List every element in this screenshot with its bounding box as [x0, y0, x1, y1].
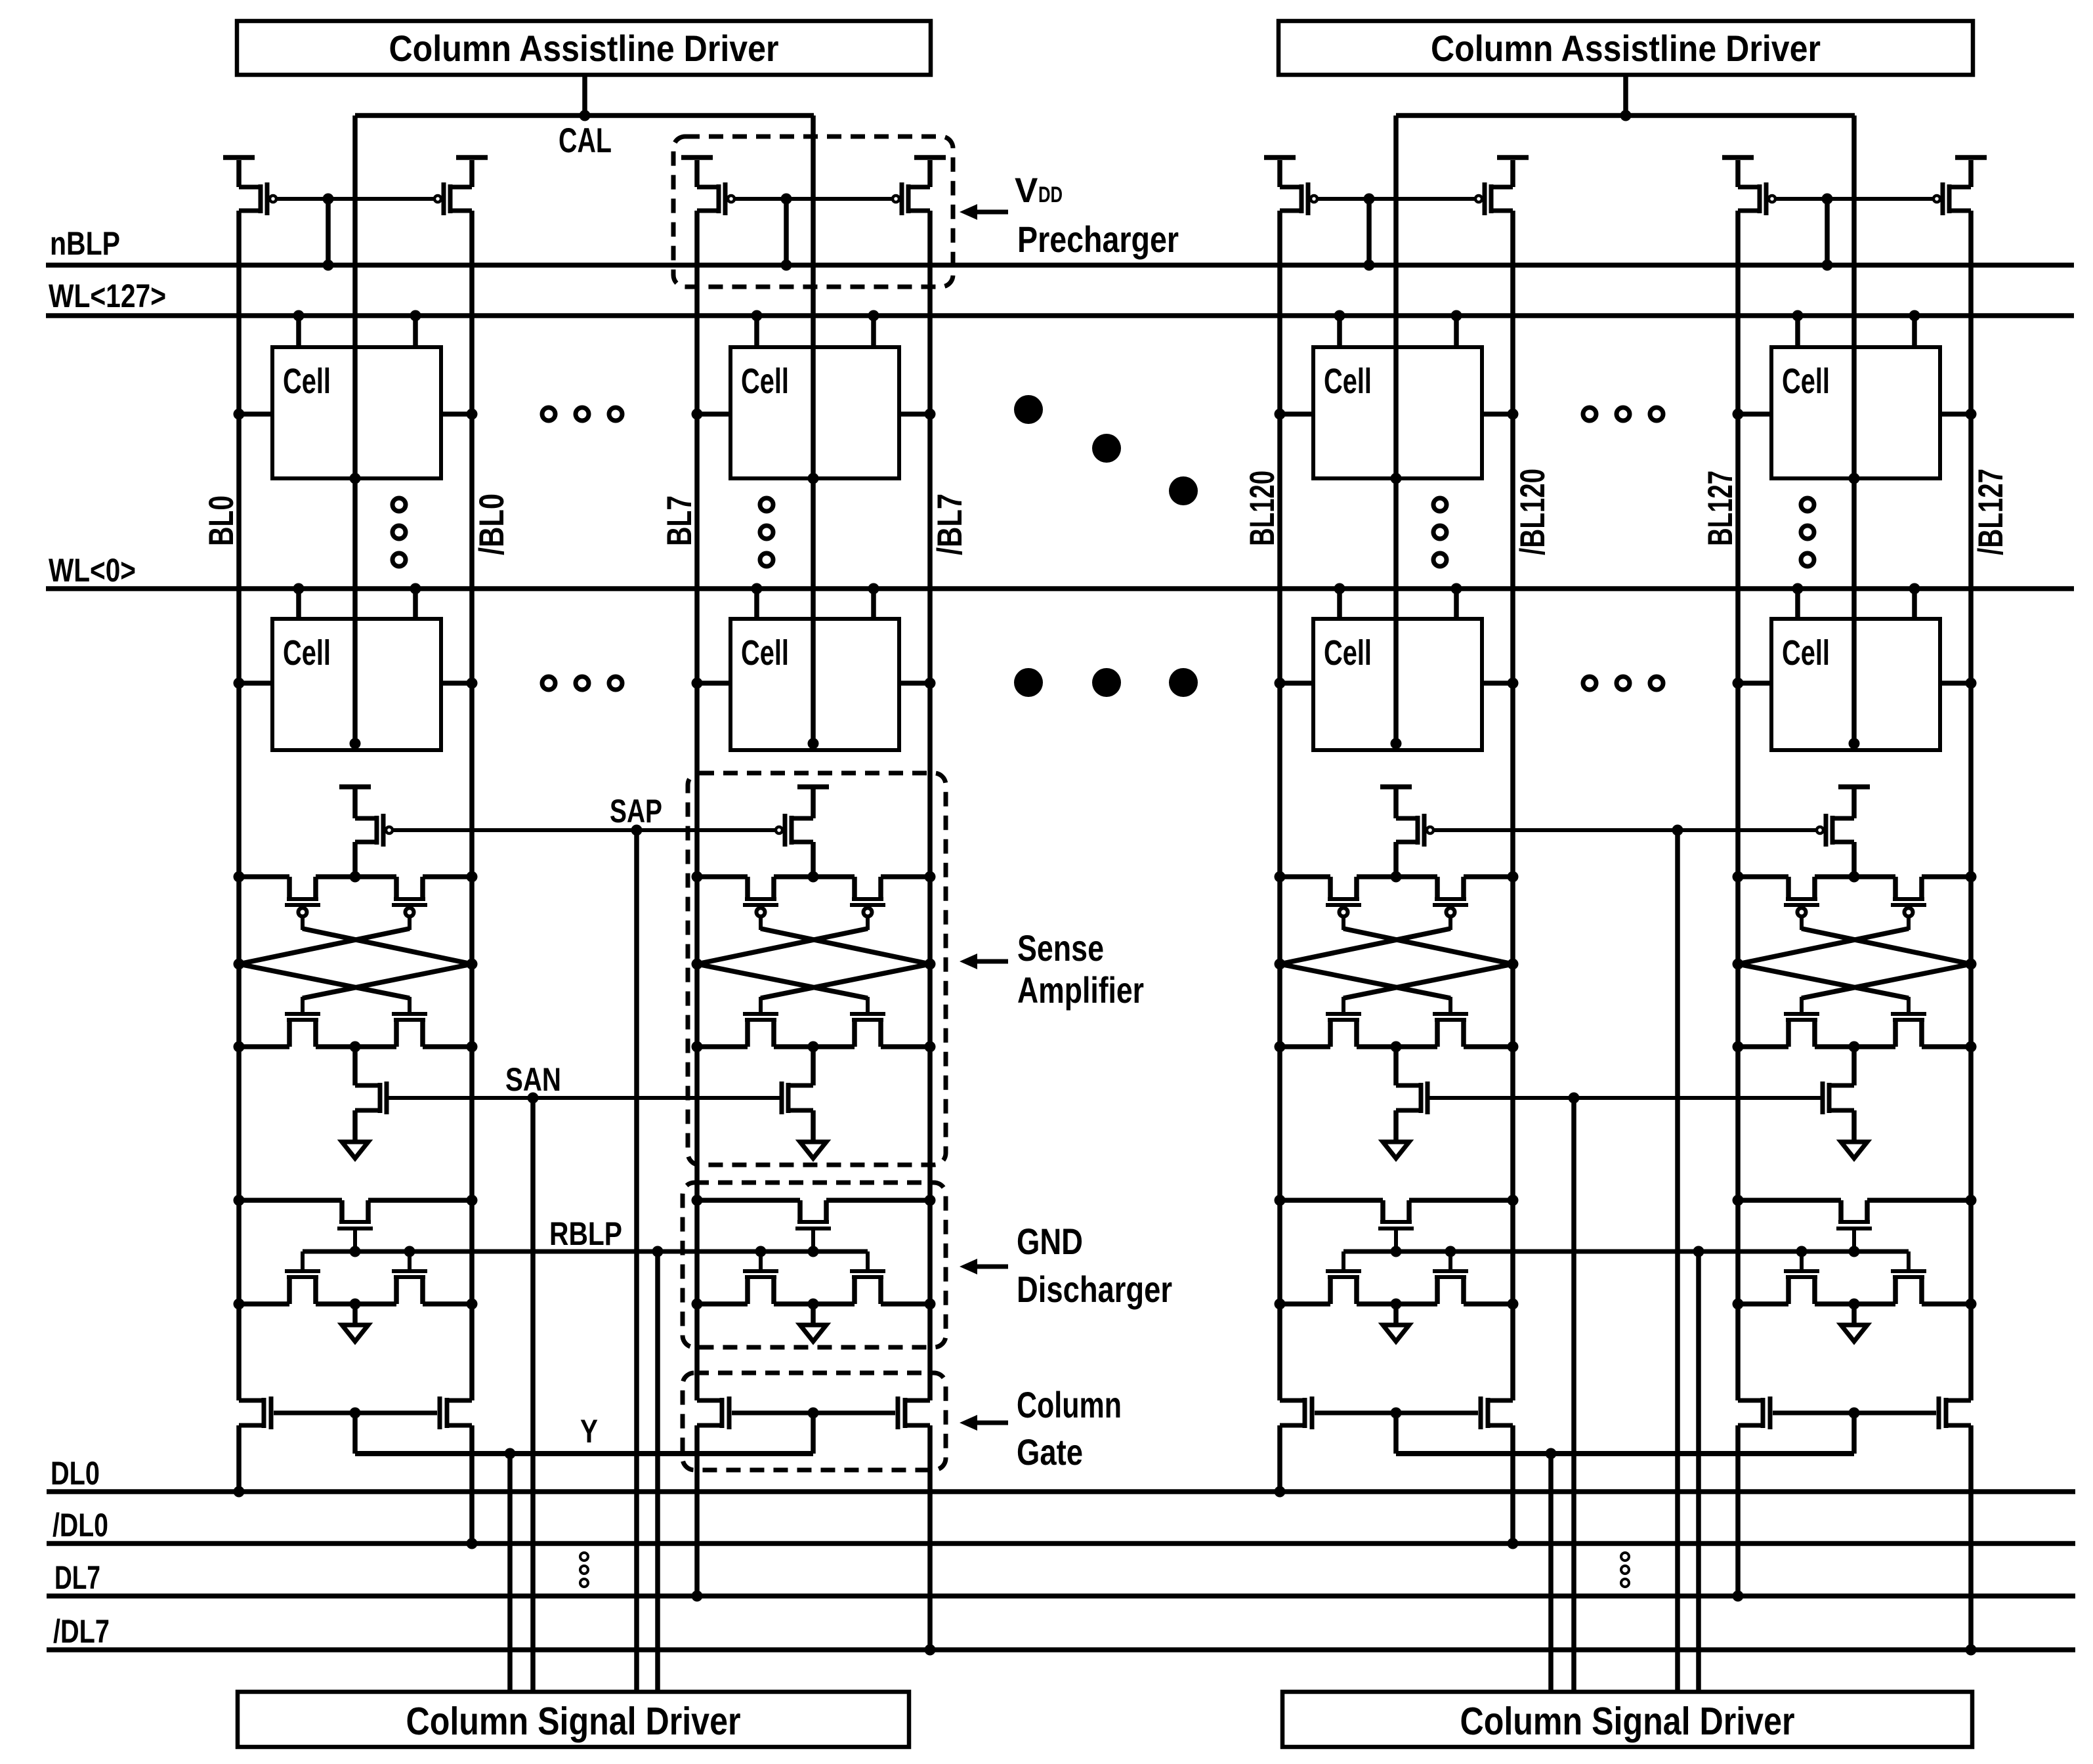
dashed box column gate [683, 1373, 946, 1470]
VDD stub (T-bar) over /BL0 [456, 155, 488, 160]
sense amp lower cross wires pair 127 [1738, 964, 1971, 998]
sense amp cross-coupled PMOS left pair 7 [743, 877, 778, 930]
svg-text:Cell: Cell [1324, 362, 1372, 401]
label /BL7 [931, 493, 969, 555]
column gate gate wires pair 0 [274, 1408, 437, 1454]
wire BL0 bit line [234, 211, 245, 1498]
sense amp top rail pair 7 [692, 871, 936, 883]
wire Y [355, 1448, 813, 1459]
sense amp mid nodes pair 7 [692, 959, 936, 970]
svg-text:Gate: Gate [1017, 1431, 1083, 1473]
svg-text:Column Assistline Driver: Column Assistline Driver [1431, 28, 1821, 69]
wire CAL horizontal [1396, 113, 1855, 118]
svg-text:Column Assistline Driver: Column Assistline Driver [389, 28, 779, 69]
sense amp cross-coupled PMOS left pair 120 [1326, 877, 1361, 930]
label DL0 [51, 1455, 100, 1492]
discharger left NMOS pair 0 [285, 1251, 320, 1304]
precharger gate wire pair 0 [276, 197, 434, 201]
svg-text:/BL120: /BL120 [1513, 469, 1552, 555]
ground below discharger pair 120 [1383, 1304, 1409, 1341]
sense amp lower cross wires pair 120 [1280, 964, 1513, 998]
SAP PMOS pair 7 [776, 784, 829, 877]
cell WL stubs pair 127 row 1 [1792, 310, 1920, 348]
wire Y drop [1548, 1454, 1554, 1692]
SAP PMOS pair 0 [339, 784, 392, 877]
discharger RBLP node dot pair 7 [808, 1246, 819, 1257]
wire BL120 bit line [1275, 211, 1286, 1498]
sense amp top rail pair 0 [234, 871, 478, 883]
ellipsis circles between cell rows pair 7 [760, 498, 773, 566]
discharger left NMOS pair 120 [1326, 1251, 1361, 1304]
cell box pair 7 row 2 [730, 619, 899, 750]
svg-text:/BL127: /BL127 [1972, 469, 2010, 555]
ellipsis circles row 2 half 0 [542, 677, 622, 690]
precharger gate wire pair 127 [1775, 197, 1934, 201]
sense amp cross-coupled NMOS left pair 0 [285, 997, 320, 1047]
discharger center NMOS pair 120 [1378, 1200, 1414, 1251]
SAN NMOS pair 127 [1821, 1047, 1857, 1114]
precharger PMOS on /BL0 [434, 160, 475, 215]
wire RBLP [1343, 1246, 1909, 1257]
cell WL stubs pair 7 row 1 [751, 310, 879, 348]
svg-text:SAP: SAP [610, 793, 662, 829]
wire SAP [1433, 825, 1817, 836]
VDD stub (T-bar) over BL0 [223, 155, 255, 160]
ground below SAN pair 0 [342, 1110, 368, 1158]
sense amp lower cross wires pair 0 [239, 964, 472, 998]
svg-text:V: V [1015, 171, 1038, 210]
column gate NMOS on BL7 [697, 1396, 732, 1429]
Column Assistline Driver box [1279, 21, 1973, 75]
cell BL taps pair 7 row 2 [692, 678, 936, 689]
sense amp mid nodes pair 0 [234, 959, 478, 970]
label BL127 [1701, 471, 1740, 546]
label GND Discharger [1017, 1221, 1172, 1310]
label BL7 [660, 495, 699, 546]
wire DL7 [47, 1593, 2075, 1599]
discharger right NMOS pair 127 [1891, 1251, 1926, 1304]
svg-text:/BL0: /BL0 [473, 493, 511, 555]
label DL7 [54, 1559, 100, 1596]
precharger gate wire pair 120 [1317, 197, 1475, 201]
ground below discharger pair 127 [1841, 1304, 1867, 1341]
sense amp cross-coupled PMOS right pair 120 [1433, 877, 1468, 930]
precharger PMOS on /BL127 [1934, 160, 1974, 215]
wire RBLP drop [655, 1251, 660, 1692]
precharger PMOS on BL0 [236, 160, 276, 215]
sense amp cross-coupled PMOS right pair 7 [850, 877, 885, 930]
wire Y drop [507, 1454, 513, 1692]
label /DL7 [53, 1613, 110, 1650]
discharger bottom rail pair 0 [234, 1299, 478, 1310]
ground below SAN pair 7 [800, 1110, 826, 1158]
sense amp upper cross wires pair 120 [1280, 929, 1513, 964]
ellipsis circles between cell rows pair 120 [1433, 498, 1447, 566]
discharger right NMOS pair 120 [1433, 1246, 1468, 1305]
wire precharger gate to nBLP pair 7 [781, 194, 792, 271]
discharger center NMOS pair 0 [337, 1200, 373, 1251]
sense amp top rail pair 127 [1733, 871, 1977, 883]
sense amp upper cross wires pair 7 [697, 929, 930, 964]
Column Signal Driver box [238, 1692, 909, 1747]
SAN NMOS pair 120 [1393, 1047, 1429, 1114]
svg-text:SAN: SAN [505, 1061, 561, 1098]
column gate NMOS on BL120 [1280, 1396, 1315, 1429]
svg-text:Cell: Cell [1324, 633, 1372, 673]
cell box pair 120 row 2 [1313, 619, 1482, 750]
label CAL [559, 121, 612, 160]
wire /BL7 bit line [925, 211, 936, 1656]
wire SAP drop [1675, 830, 1680, 1692]
svg-text:WL<127>: WL<127> [49, 278, 166, 314]
svg-text:Column Signal Driver: Column Signal Driver [406, 1700, 741, 1743]
cell box pair 127 row 2 [1771, 619, 1940, 750]
sense amp mid nodes pair 127 [1733, 959, 1977, 970]
wire nBLP [46, 262, 2074, 268]
cell BL taps pair 0 row 2 [234, 678, 478, 689]
svg-text:DL0: DL0 [51, 1455, 100, 1492]
sense amp top rail pair 120 [1275, 871, 1519, 883]
sense amp bottom rail pair 0 [234, 1041, 478, 1053]
cell WL stubs pair 0 row 1 [293, 310, 421, 348]
svg-text:Cell: Cell [1782, 633, 1830, 673]
arrow to sense amplifier [960, 954, 1008, 969]
precharger PMOS on /BL120 [1475, 160, 1515, 215]
discharger top rail pair 127 [1733, 1195, 1977, 1206]
discharger top rail pair 120 [1275, 1195, 1519, 1206]
arrow to GND discharger [960, 1259, 1008, 1274]
svg-text:Precharger: Precharger [1017, 219, 1179, 260]
svg-text:Amplifier: Amplifier [1017, 969, 1144, 1011]
Column Assistline Driver box [237, 21, 931, 75]
VDD stub (T-bar) over BL7 [681, 155, 713, 160]
svg-text:Y: Y [580, 1413, 598, 1450]
sense amp upper cross wires pair 0 [239, 929, 472, 964]
cell BL taps pair 0 row 1 [234, 409, 478, 420]
cell BL taps pair 7 row 1 [692, 409, 936, 420]
svg-text:BL120: BL120 [1243, 471, 1282, 546]
ellipsis circles row 1 half 120 [1583, 408, 1663, 421]
wire CAL vertical pair 127 [1849, 115, 1860, 749]
wire DL0 [47, 1489, 2075, 1494]
svg-text:Column: Column [1017, 1384, 1122, 1425]
svg-text:WL<0>: WL<0> [49, 552, 136, 589]
label WL<127> [49, 278, 166, 314]
svg-text:CAL: CAL [559, 121, 612, 160]
SAP PMOS pair 127 [1817, 784, 1870, 877]
cell BL taps pair 120 row 1 [1275, 409, 1519, 420]
svg-text:/DL7: /DL7 [53, 1613, 110, 1650]
label nBLP [50, 225, 120, 262]
cell WL stubs pair 127 row 2 [1792, 583, 1920, 619]
wire CAL horizontal [355, 113, 814, 118]
label BL120 [1243, 471, 1282, 546]
wire SAN drop [1571, 1098, 1576, 1692]
sense amp cross-coupled PMOS left pair 127 [1784, 877, 1819, 930]
sense amp cross-coupled PMOS right pair 0 [392, 877, 427, 930]
svg-text:/BL7: /BL7 [931, 493, 969, 555]
label Y [580, 1413, 598, 1450]
wire Y [1396, 1448, 1854, 1459]
wire /BL0 bit line [467, 211, 478, 1549]
cell WL stubs pair 0 row 2 [293, 583, 421, 619]
wire RBLP drop [1696, 1251, 1701, 1692]
wire BL127 bit line [1733, 211, 1744, 1602]
label SAP [610, 793, 662, 829]
wire CAL vertical pair 0 [350, 115, 361, 749]
column gate gate wires pair 7 [732, 1408, 895, 1454]
arrow to VDD precharger [960, 204, 1008, 220]
wire precharger gate to nBLP pair 127 [1822, 194, 1833, 271]
label /BL120 [1513, 469, 1552, 555]
svg-text:nBLP: nBLP [50, 225, 120, 262]
discharger bottom rail pair 120 [1275, 1299, 1519, 1310]
discharger left NMOS pair 127 [1784, 1246, 1819, 1305]
svg-text:GND: GND [1017, 1221, 1083, 1262]
label /BL0 [473, 493, 511, 555]
ellipsis circles row 1 half 0 [542, 408, 622, 421]
ellipsis circles row 2 half 120 [1583, 677, 1663, 690]
ellipsis circles between cell rows pair 0 [392, 498, 406, 566]
column gate NMOS on BL127 [1738, 1396, 1773, 1429]
column gate NMOS on /BL127 [1937, 1396, 1972, 1429]
cell box pair 127 row 1 [1771, 347, 1940, 478]
wire SAN [389, 1093, 780, 1104]
discharger right NMOS pair 0 [392, 1246, 427, 1305]
column gate gate wires pair 127 [1773, 1408, 1936, 1454]
column gate NMOS on /BL7 [896, 1396, 931, 1429]
sense amp cross-coupled NMOS right pair 0 [392, 997, 427, 1047]
label BL0 [202, 495, 241, 546]
cell BL taps pair 120 row 2 [1275, 678, 1519, 689]
wire /BL127 bit line [1966, 211, 1977, 1656]
label Sense Amplifier [1017, 927, 1144, 1011]
precharger PMOS on BL7 [694, 160, 734, 215]
sense amp cross-coupled NMOS right pair 127 [1891, 997, 1926, 1047]
discharger bottom rail pair 127 [1733, 1299, 1977, 1310]
Column Signal Driver box [1282, 1692, 1972, 1747]
cell WL stubs pair 120 row 1 [1334, 310, 1462, 348]
svg-text:BL0: BL0 [202, 495, 241, 546]
sense amp cross-coupled PMOS right pair 127 [1891, 877, 1926, 930]
wire SAP [392, 825, 776, 836]
wire driver box to CAL [580, 75, 591, 121]
sense amp lower cross wires pair 7 [697, 964, 930, 998]
svg-text:Discharger: Discharger [1017, 1269, 1172, 1310]
sense amp bottom rail pair 127 [1733, 1041, 1977, 1053]
discharger top rail pair 0 [234, 1195, 478, 1206]
svg-text:Cell: Cell [283, 362, 331, 401]
column gate NMOS on /BL0 [438, 1396, 473, 1429]
SAP PMOS pair 120 [1380, 784, 1433, 877]
precharger PMOS on /BL7 [893, 160, 933, 215]
discharger center NMOS pair 7 [795, 1200, 831, 1251]
wire RBLP [303, 1246, 868, 1257]
dashed box VDD precharger [673, 136, 953, 287]
svg-text:Sense: Sense [1017, 927, 1104, 969]
label /BL127 [1972, 469, 2010, 555]
svg-text:Cell: Cell [741, 362, 789, 401]
big ellipsis dots horizontal [1014, 668, 1198, 697]
sense amp cross-coupled NMOS left pair 7 [743, 997, 778, 1047]
cell box pair 120 row 1 [1313, 347, 1482, 478]
VDD stub (T-bar) over BL120 [1264, 155, 1296, 160]
discharger center NMOS pair 127 [1836, 1200, 1872, 1251]
wire SAN [1429, 1093, 1821, 1104]
wire CAL vertical pair 7 [808, 115, 819, 749]
column gate NMOS on /BL120 [1479, 1396, 1513, 1429]
column gate gate wires pair 120 [1315, 1408, 1478, 1454]
SAN NMOS pair 7 [780, 1047, 816, 1114]
discharger top rail pair 7 [692, 1195, 936, 1206]
wire CAL vertical pair 120 [1391, 115, 1402, 749]
sense amp cross-coupled NMOS left pair 120 [1326, 997, 1361, 1047]
ellipsis circles between cell rows pair 127 [1801, 498, 1814, 566]
sense amp upper cross wires pair 127 [1738, 929, 1971, 964]
cell box pair 0 row 2 [272, 619, 441, 750]
discharger RBLP node dot pair 0 [350, 1246, 361, 1257]
label /DL0 [53, 1507, 108, 1543]
ground below SAN pair 120 [1383, 1110, 1409, 1158]
sense amp mid nodes pair 120 [1275, 959, 1519, 970]
discharger RBLP node dot pair 127 [1849, 1246, 1860, 1257]
label SAN [505, 1061, 561, 1098]
ellipsis circles between /DL0 and DL7 [580, 1553, 588, 1587]
cell box pair 0 row 1 [272, 347, 441, 478]
wire driver box to CAL [1620, 75, 1632, 121]
sense amp cross-coupled NMOS left pair 127 [1784, 997, 1819, 1047]
svg-text:BL7: BL7 [660, 495, 699, 546]
VDD stub (T-bar) over /BL120 [1497, 155, 1529, 160]
svg-text:Cell: Cell [741, 633, 789, 673]
ground below discharger pair 0 [342, 1304, 368, 1341]
discharger left NMOS pair 7 [743, 1246, 778, 1305]
wire /DL0 [47, 1541, 2075, 1546]
wire SAP drop [634, 830, 639, 1692]
column gate NMOS on BL0 [239, 1396, 274, 1429]
big ellipsis dots diagonal [1014, 395, 1198, 505]
cell WL stubs pair 120 row 2 [1334, 583, 1462, 619]
svg-text:DL7: DL7 [54, 1559, 100, 1596]
discharger right NMOS pair 7 [850, 1251, 885, 1304]
precharger PMOS on BL127 [1735, 160, 1775, 215]
cell box pair 7 row 1 [730, 347, 899, 478]
wire precharger gate to nBLP pair 120 [1364, 194, 1375, 271]
discharger RBLP node dot pair 120 [1391, 1246, 1402, 1257]
VDD stub (T-bar) over /BL7 [914, 155, 946, 160]
VDD stub (T-bar) over BL127 [1722, 155, 1754, 160]
wire /BL120 bit line [1508, 211, 1519, 1549]
ground below discharger pair 7 [800, 1304, 826, 1341]
label VDD Precharger [1015, 171, 1179, 260]
cell WL stubs pair 7 row 2 [751, 583, 879, 619]
SAN NMOS pair 0 [352, 1047, 389, 1114]
svg-text:DD: DD [1038, 182, 1063, 207]
svg-text:Cell: Cell [1782, 362, 1830, 401]
sense amp cross-coupled NMOS right pair 120 [1433, 997, 1468, 1047]
wire WL<0> [46, 586, 2074, 591]
arrow to column gate [960, 1415, 1008, 1431]
svg-text:Column Signal Driver: Column Signal Driver [1460, 1700, 1795, 1743]
sense amp cross-coupled NMOS right pair 7 [850, 997, 885, 1047]
sense amp bottom rail pair 120 [1275, 1041, 1519, 1053]
svg-text:Cell: Cell [283, 633, 331, 673]
sense amp bottom rail pair 7 [692, 1041, 936, 1053]
cell BL taps pair 127 row 1 [1733, 409, 1977, 420]
wire /DL7 [47, 1647, 2075, 1652]
precharger PMOS on BL120 [1277, 160, 1317, 215]
sense amp cross-coupled PMOS left pair 0 [285, 877, 320, 930]
dashed box GND discharger [683, 1183, 946, 1347]
wire BL7 bit line [692, 211, 703, 1602]
svg-text:RBLP: RBLP [549, 1215, 622, 1252]
VDD stub (T-bar) over /BL127 [1955, 155, 1987, 160]
svg-text:BL127: BL127 [1701, 471, 1740, 546]
label WL<0> [49, 552, 136, 589]
dashed box sense amplifier [688, 773, 946, 1165]
label RBLP [549, 1215, 622, 1252]
wire SAN drop [530, 1098, 536, 1692]
ellipsis circles between /DL0 and DL7 [1621, 1553, 1629, 1587]
cell BL taps pair 127 row 2 [1733, 678, 1977, 689]
label Column Gate [1017, 1384, 1122, 1473]
precharger gate wire pair 7 [734, 197, 893, 201]
discharger bottom rail pair 7 [692, 1299, 936, 1310]
ground below SAN pair 127 [1841, 1110, 1867, 1158]
wire WL<127> [46, 313, 2074, 318]
wire precharger gate to nBLP pair 0 [323, 194, 334, 271]
svg-text:/DL0: /DL0 [53, 1507, 108, 1543]
